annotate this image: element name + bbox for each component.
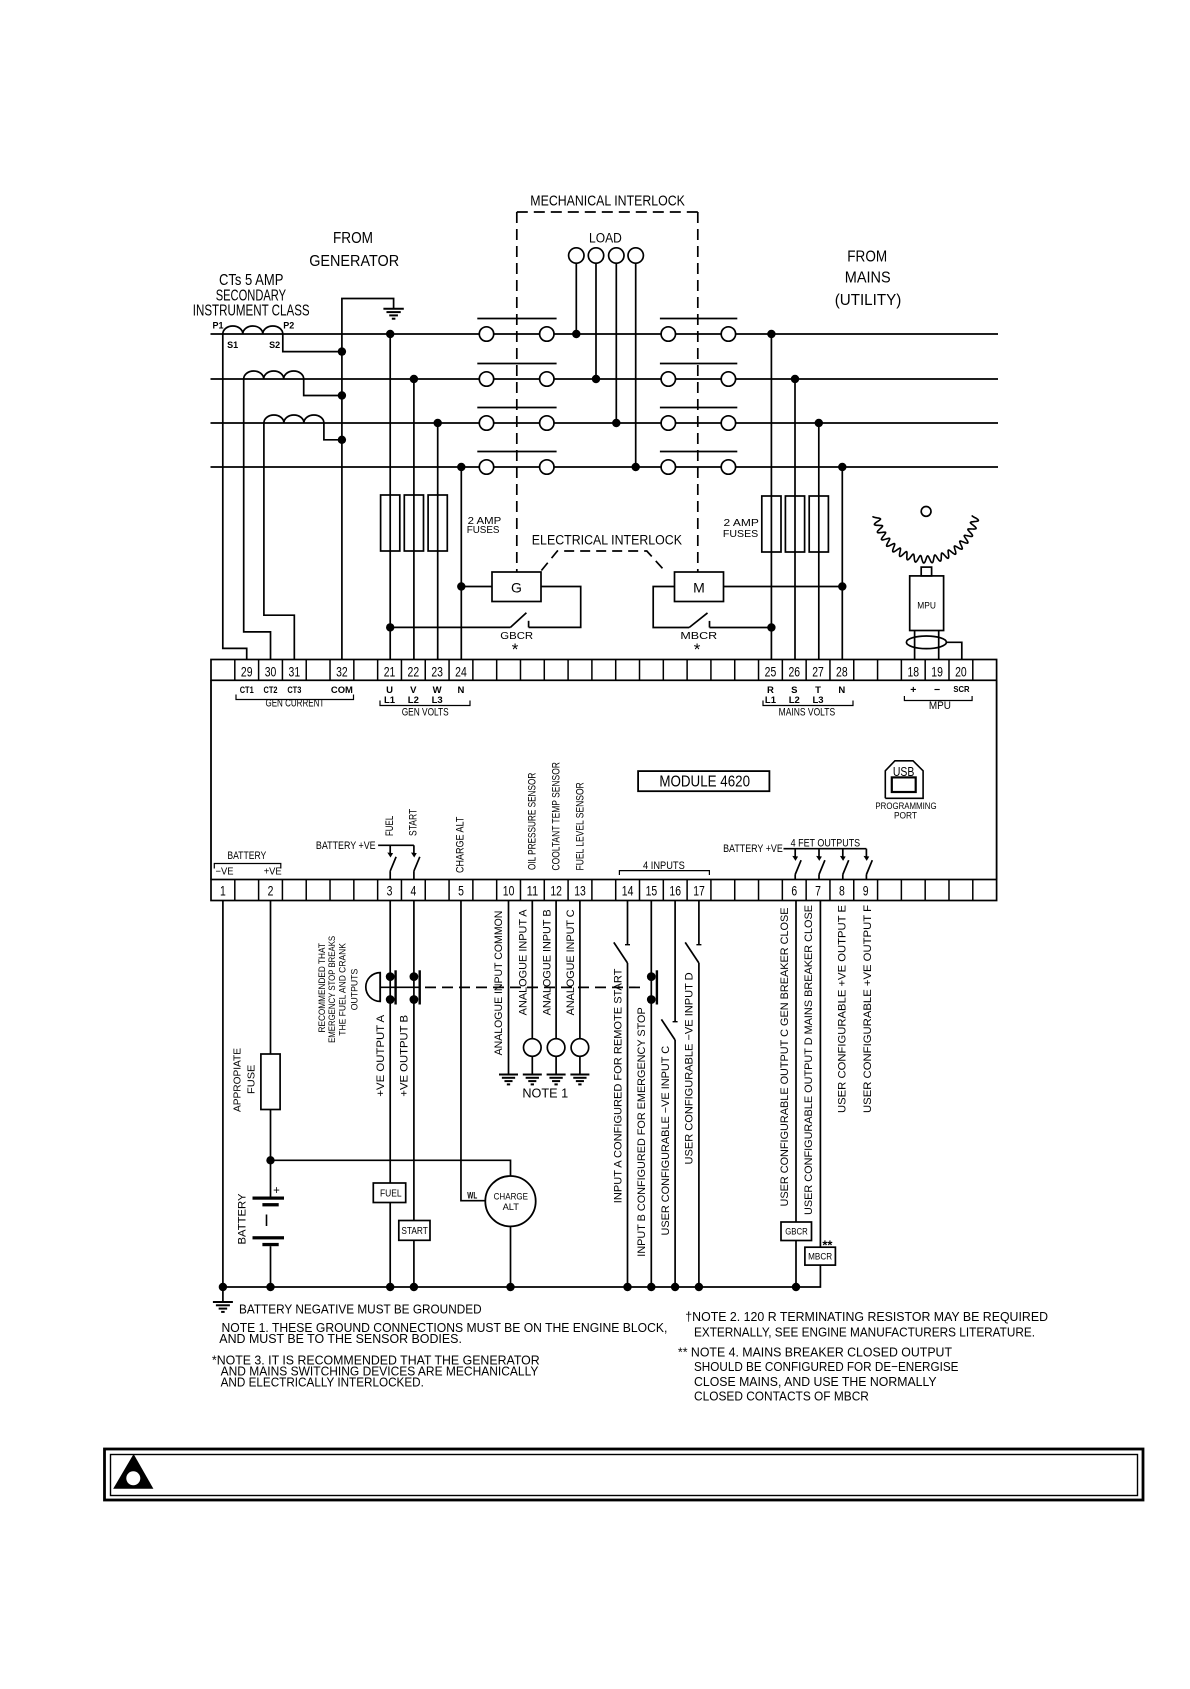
title FROM MAINS (UTILITY)	[835, 248, 902, 309]
terminal strip lower (module bottom edge)	[211, 880, 997, 901]
label FUEL LEVEL SENSOR	[575, 782, 587, 870]
svg-text:COM: COM	[331, 685, 353, 696]
wire sensor B to ground	[555, 1056, 557, 1074]
ground analogue common	[499, 1075, 518, 1085]
FET output switch E	[840, 849, 849, 880]
fuel solenoid box FUEL	[373, 1183, 405, 1203]
ground sensor A	[523, 1075, 542, 1085]
svg-text:PORT: PORT	[894, 811, 917, 822]
label BATTERY +VE (FET feed)	[723, 843, 783, 855]
label USER CONFIGURABLE OUTPUT C GEN BREAKER CLOSE	[779, 908, 791, 1207]
svg-text:2 AMP: 2 AMP	[724, 518, 760, 529]
svg-text:FUSES: FUSES	[723, 529, 759, 540]
battery cells symbol	[253, 1185, 285, 1287]
svg-text:BATTERY: BATTERY	[236, 1193, 248, 1245]
earth ground symbol (CT common)	[383, 309, 403, 319]
svg-text:CHARGE: CHARGE	[494, 1192, 528, 1202]
label APPROPIATE FUSE	[232, 1048, 258, 1112]
svg-text:RECOMMENDED THAT: RECOMMENDED THAT	[317, 943, 327, 1033]
wire battery +ve feed to fuel/start switches	[378, 844, 414, 846]
svg-text:CT2: CT2	[264, 685, 278, 696]
label +VE OUTPUT B	[399, 1015, 411, 1097]
label R S T N / MAINS VOLTS	[763, 685, 853, 718]
svg-text:M: M	[693, 580, 705, 596]
svg-text:AND ELECTRICALLY INTERLOCKED.: AND ELECTRICALLY INTERLOCKED.	[221, 1375, 424, 1390]
svg-text:CT3: CT3	[287, 685, 301, 696]
svg-text:CT1: CT1	[240, 685, 255, 696]
wire mains volts 26 tap	[791, 375, 799, 660]
label BATTERY (vertical)	[236, 1193, 248, 1245]
label ANALOGUE INPUT C	[565, 909, 577, 1015]
label USER CONFIGURABLE -VE INPUT D	[684, 972, 696, 1164]
wire M coil to mains neutral	[723, 582, 846, 590]
svg-text:BATTERY +VE: BATTERY +VE	[723, 843, 783, 855]
label USER CONFIGURABLE OUTPUT D MAINS BREAKER CLOSE	[803, 905, 815, 1215]
label + - SCR / MPU	[904, 684, 972, 712]
wire CT2 S2 to COM	[304, 379, 346, 400]
label LOAD	[589, 230, 622, 245]
label ELECTRICAL INTERLOCK	[532, 533, 682, 548]
svg-text:G: G	[511, 580, 522, 596]
svg-text:MBCR: MBCR	[808, 1252, 832, 1263]
relay coil box GBCR	[781, 1222, 812, 1241]
svg-text:ELECTRICAL INTERLOCK: ELECTRICAL INTERLOCK	[532, 533, 682, 548]
svg-text:22: 22	[408, 663, 420, 679]
title FROM GENERATOR	[309, 230, 399, 270]
label CTs 5 AMP SECONDARY INSTRUMENT CLASS	[193, 272, 310, 319]
svg-text:FUSE: FUSE	[246, 1065, 258, 1094]
wire phase bus L1	[211, 333, 999, 335]
label 2 AMP FUSES (mains)	[723, 518, 759, 540]
wire CT3 S1 to terminal 31	[264, 423, 294, 660]
label BATTERY -VE +VE bracket	[214, 850, 282, 878]
label CHARGE ALT	[454, 816, 466, 873]
svg-text:MAINS VOLTS: MAINS VOLTS	[779, 706, 836, 718]
warning banner box	[105, 1449, 1144, 1500]
chassis ground symbol (battery negative)	[213, 1302, 233, 1312]
USB programming port icon	[885, 761, 923, 799]
svg-text:28: 28	[836, 663, 848, 679]
svg-text:−VE: −VE	[216, 867, 234, 878]
label ** (note 4 marker)	[822, 1238, 833, 1253]
wire gen volts 24 tap	[457, 463, 465, 660]
svg-text:−: −	[934, 684, 940, 696]
fuse battery (appropriate fuse)	[261, 1054, 280, 1110]
svg-text:19: 19	[931, 663, 943, 679]
current transformer CT1	[212, 320, 294, 350]
module left edge	[210, 680, 212, 879]
svg-text:30: 30	[265, 663, 277, 679]
svg-text:16: 16	[669, 883, 681, 899]
MPU cable ellipse	[906, 636, 946, 649]
svg-text:L1: L1	[384, 695, 396, 706]
svg-text:+VE OUTPUT B: +VE OUTPUT B	[399, 1015, 411, 1097]
svg-text:START: START	[401, 1225, 428, 1237]
wire terminal 5 charge alt WL	[461, 901, 486, 1201]
svg-text:SHOULD BE CONFIGURED FOR DE−EN: SHOULD BE CONFIGURED FOR DE−ENERGISE	[694, 1359, 959, 1374]
wire sensor C to ground	[579, 1056, 581, 1074]
current transformer CT3	[264, 415, 324, 423]
svg-text:USER CONFIGURABLE OUTPUT D MAI: USER CONFIGURABLE OUTPUT D MAINS BREAKER…	[803, 905, 815, 1215]
wire charge alt to negative rail	[510, 1226, 512, 1287]
contactor coil M	[675, 572, 724, 602]
warning triangle icon	[113, 1454, 153, 1489]
svg-text:17: 17	[693, 883, 705, 899]
svg-text:20: 20	[955, 663, 967, 679]
label ANALOGUE INPUT A	[518, 909, 530, 1016]
svg-text:*: *	[512, 640, 519, 659]
label USER CONFIGURABLE -VE INPUT C	[660, 1046, 672, 1236]
wire phase bus L3	[211, 422, 999, 424]
svg-text:FROM: FROM	[333, 230, 373, 247]
ground sensor C	[570, 1075, 589, 1085]
auxiliary contact MBCR	[689, 613, 775, 632]
svg-text:23: 23	[431, 663, 443, 679]
svg-text:OIL PRESSURE SENSOR: OIL PRESSURE SENSOR	[527, 773, 539, 870]
wire CT1 S1 to terminal 29	[223, 334, 247, 660]
svg-text:11: 11	[527, 883, 539, 899]
svg-text:ANALOGUE INPUT B: ANALOGUE INPUT B	[541, 909, 553, 1015]
svg-text:L3: L3	[813, 695, 824, 706]
wire terminal 7 output D	[819, 901, 821, 1248]
label ANALOGUE INPUT B	[541, 909, 553, 1015]
wire terminal 10 analogue common	[508, 901, 510, 1075]
svg-text:FROM: FROM	[847, 248, 887, 265]
mains breaker contacts	[660, 319, 737, 475]
terminal strip upper (module top edge)	[211, 660, 997, 681]
svg-text:GEN VOLTS: GEN VOLTS	[402, 706, 449, 718]
wire COM to terminal 32 and earth	[342, 299, 394, 660]
label INPUT B CONFIGURED FOR EMERGENCY STOP	[636, 1007, 648, 1256]
label BATTERY +VE (fuel/start feed)	[316, 840, 376, 852]
svg-text:USER CONFIGURABLE +VE OUTPUT F: USER CONFIGURABLE +VE OUTPUT F	[862, 905, 874, 1113]
wire terminal 6 output C	[795, 901, 797, 1288]
wire mains volts 28 tap	[838, 463, 846, 660]
wire M coil to MBCR contact	[653, 587, 689, 628]
svg-text:START: START	[408, 809, 420, 836]
svg-text:CLOSED CONTACTS OF MBCR: CLOSED CONTACTS OF MBCR	[694, 1389, 869, 1404]
svg-text:10: 10	[503, 883, 515, 899]
svg-text:MODULE 4620: MODULE 4620	[659, 774, 750, 791]
label 2 AMP FUSES (gen)	[467, 516, 502, 536]
label USER CONFIGURABLE +VE OUTPUT F	[862, 905, 874, 1113]
svg-text:USER CONFIGURABLE OUTPUT C GEN: USER CONFIGURABLE OUTPUT C GEN BREAKER C…	[779, 908, 791, 1207]
label WL	[467, 1191, 477, 1201]
svg-text:3: 3	[387, 883, 393, 899]
label 4 INPUTS bracket	[619, 860, 709, 875]
wire terminal 1 battery negative	[222, 901, 224, 1288]
svg-text:LOAD: LOAD	[589, 230, 622, 245]
svg-text:INSTRUMENT CLASS: INSTRUMENT CLASS	[193, 302, 310, 319]
svg-text:9: 9	[863, 883, 869, 899]
svg-text:21: 21	[384, 663, 396, 679]
FET output switch F	[864, 849, 873, 880]
svg-text:BATTERY NEGATIVE MUST BE GROUN: BATTERY NEGATIVE MUST BE GROUNDED	[239, 1302, 482, 1317]
emergency stop contact on input B	[647, 901, 657, 1288]
wire terminal 3 fuel output	[389, 901, 391, 1288]
svg-text:15: 15	[646, 883, 658, 899]
wire CT2 S1 to terminal 30	[244, 379, 271, 660]
svg-text:FUEL: FUEL	[380, 1187, 402, 1199]
auxiliary contact GBCR	[386, 613, 526, 632]
sensor circle analogue input B	[547, 1039, 565, 1057]
wire gen volts 23 tap	[434, 419, 442, 660]
wire phase bus N	[211, 466, 999, 468]
wire terminal 2 battery positive	[270, 901, 272, 1197]
svg-text:†NOTE 2. 120 R TERMINATING RES: †NOTE 2. 120 R TERMINATING RESISTOR MAY …	[685, 1309, 1048, 1324]
svg-text:CHARGE ALT: CHARGE ALT	[454, 816, 466, 873]
fuse F2 gen L2 2A	[404, 495, 423, 551]
wire CT1 S2 to COM	[283, 334, 346, 356]
svg-text:BATTERY: BATTERY	[227, 850, 266, 862]
svg-text:+: +	[910, 684, 916, 696]
svg-text:6: 6	[791, 883, 797, 899]
svg-text:L3: L3	[432, 695, 443, 706]
svg-text:USER CONFIGURABLE −VE INPUT D: USER CONFIGURABLE −VE INPUT D	[684, 972, 696, 1164]
fuse F1 gen L1 2A	[381, 495, 400, 551]
svg-text:29: 29	[241, 663, 253, 679]
label PROGRAMMING PORT	[875, 801, 936, 821]
wire battery +ve feed to FET switches	[784, 848, 867, 850]
svg-text:+: +	[273, 1185, 280, 1197]
label FUEL (output A)	[384, 816, 396, 836]
wire terminal 11 analogue input A	[531, 901, 533, 1039]
svg-text:MECHANICAL INTERLOCK: MECHANICAL INTERLOCK	[530, 192, 685, 209]
sensor circle analogue input A	[524, 1039, 542, 1057]
wire rail to chassis ground	[222, 1287, 224, 1301]
svg-text:ANALOGUE INPUT COMMON: ANALOGUE INPUT COMMON	[493, 911, 505, 1056]
note 1 text	[219, 1320, 667, 1346]
wire mains volts 25 tap	[767, 330, 775, 660]
svg-text:NOTE 1: NOTE 1	[522, 1087, 568, 1101]
svg-text:N: N	[458, 685, 465, 696]
svg-text:ANALOGUE INPUT C: ANALOGUE INPUT C	[565, 909, 577, 1015]
note 3 text	[212, 1353, 540, 1390]
note BATTERY NEGATIVE MUST BE GROUNDED	[239, 1302, 482, 1317]
FET output switch C	[792, 849, 801, 880]
svg-text:OUTPUTS: OUTPUTS	[350, 969, 360, 1011]
svg-text:2: 2	[268, 883, 274, 899]
svg-text:MAINS: MAINS	[845, 269, 891, 286]
svg-text:14: 14	[622, 883, 634, 899]
svg-text:4: 4	[410, 883, 416, 899]
svg-text:GENERATOR: GENERATOR	[309, 253, 399, 270]
svg-text:18: 18	[907, 663, 919, 679]
note 2 text	[685, 1309, 1048, 1340]
charge alternator circle	[485, 1176, 535, 1226]
label U V W N / GEN VOLTS	[380, 685, 470, 718]
svg-text:AND MUST BE TO THE SENSOR BODI: AND MUST BE TO THE SENSOR BODIES.	[219, 1331, 462, 1346]
svg-text:INPUT A CONFIGURED FOR REMOTE: INPUT A CONFIGURED FOR REMOTE START	[612, 968, 624, 1203]
svg-text:USER CONFIGURABLE −VE INPUT C: USER CONFIGURABLE −VE INPUT C	[660, 1046, 672, 1236]
svg-text:**: **	[822, 1238, 833, 1253]
wire battery positive rail to charge alt	[271, 1160, 511, 1176]
wire MPU screen to terminal 20	[946, 642, 961, 659]
ground sensor B	[547, 1075, 566, 1085]
svg-text:P1: P1	[212, 320, 223, 330]
label RECOMMENDED THAT EMERGENCY STOP BREAKS THE FUEL AND CRANK OUTPUTS	[317, 936, 360, 1043]
svg-text:31: 31	[289, 663, 301, 679]
battery negative rail	[219, 1265, 821, 1291]
label 4 FET OUTPUTS	[791, 837, 861, 849]
starter solenoid box START	[399, 1221, 430, 1241]
svg-text:(UTILITY): (UTILITY)	[835, 292, 902, 309]
svg-text:EMERGENCY STOP BREAKS: EMERGENCY STOP BREAKS	[327, 936, 337, 1043]
wire terminal 4 start output	[413, 901, 415, 1288]
svg-text:8: 8	[839, 883, 845, 899]
svg-text:GEN CURRENT: GEN CURRENT	[265, 698, 324, 710]
wire MPU + to terminal 18	[914, 631, 916, 660]
MPU magnetic pickup body	[910, 567, 944, 630]
svg-text:27: 27	[812, 663, 824, 679]
wire gen volts 21 tap	[386, 330, 394, 660]
module right edge	[996, 680, 998, 879]
label CT1 CT2 CT3 COM / GEN CURRENT	[236, 685, 354, 710]
svg-text:ALT: ALT	[503, 1202, 520, 1212]
svg-text:4 FET OUTPUTS: 4 FET OUTPUTS	[791, 837, 861, 849]
svg-text:MPU: MPU	[929, 700, 951, 712]
svg-text:32: 32	[336, 663, 348, 679]
svg-text:1: 1	[220, 883, 226, 899]
label COOLTANT TEMP SENSOR	[550, 762, 562, 870]
svg-text:N: N	[838, 685, 845, 696]
relay contact FUEL output	[387, 845, 396, 879]
svg-text:EXTERNALLY, SEE ENGINE MANUFAC: EXTERNALLY, SEE ENGINE MANUFACTURERS LIT…	[694, 1325, 1035, 1340]
current transformer CT2	[244, 371, 304, 379]
note 4 text	[678, 1345, 959, 1404]
svg-text:** NOTE 4. MAINS BREAKER CLOSE: ** NOTE 4. MAINS BREAKER CLOSED OUTPUT	[678, 1345, 952, 1360]
emergency stop pushbutton (breaks fuel and crank)	[366, 970, 420, 1004]
LOAD connection circles and droppers	[569, 248, 644, 471]
module label MODULE 4620	[638, 771, 769, 791]
label NOTE 1	[522, 1087, 568, 1101]
label +VE OUTPUT A	[375, 1014, 387, 1096]
fuse F4 mains L1 2A	[762, 496, 781, 552]
svg-text:S2: S2	[269, 340, 280, 350]
svg-text:SCR: SCR	[953, 684, 969, 694]
svg-text:*: *	[694, 640, 701, 659]
svg-text:5: 5	[458, 883, 464, 899]
label OIL PRESSURE SENSOR	[527, 773, 539, 870]
svg-text:INPUT B CONFIGURED FOR EMERGEN: INPUT B CONFIGURED FOR EMERGENCY STOP	[636, 1007, 648, 1256]
MPU flywheel hole	[921, 507, 931, 517]
svg-text:+VE: +VE	[264, 867, 282, 878]
label ANALOGUE INPUT COMMON	[493, 911, 505, 1056]
svg-text:ANALOGUE INPUT A: ANALOGUE INPUT A	[518, 909, 530, 1016]
wire G coil to GBCR contact	[529, 587, 581, 628]
svg-text:S1: S1	[227, 340, 238, 350]
svg-text:FUEL LEVEL SENSOR: FUEL LEVEL SENSOR	[575, 782, 587, 870]
sensor circle analogue input C	[571, 1039, 589, 1057]
svg-text:25: 25	[765, 663, 777, 679]
svg-text:26: 26	[788, 663, 800, 679]
wire mains volts 27 tap	[815, 419, 823, 660]
svg-text:12: 12	[550, 883, 562, 899]
label MBCR	[680, 630, 717, 659]
switch input A remote start	[614, 901, 630, 1288]
wire G coil to gen neutral	[457, 582, 492, 590]
svg-text:FUSES: FUSES	[467, 525, 500, 536]
svg-text:BATTERY +VE: BATTERY +VE	[316, 840, 376, 852]
svg-text:USER CONFIGURABLE +VE OUTPUT E: USER CONFIGURABLE +VE OUTPUT E	[837, 905, 849, 1113]
svg-text:MPU: MPU	[917, 601, 936, 611]
svg-text:APPROPIATE: APPROPIATE	[232, 1048, 244, 1112]
relay coil box MBCR	[805, 1247, 836, 1265]
fuse F6 mains L3 2A	[809, 496, 828, 552]
wire gen volts 22 tap	[410, 375, 418, 660]
svg-text:+VE OUTPUT A: +VE OUTPUT A	[375, 1014, 387, 1096]
label START (output B)	[408, 809, 420, 836]
label MECHANICAL INTERLOCK	[530, 192, 685, 209]
electrical interlock dashed link	[541, 551, 664, 571]
svg-text:CLOSE MAINS, AND USE THE NORMA: CLOSE MAINS, AND USE THE NORMALLY	[694, 1374, 937, 1389]
wire CT3 S2 to COM	[324, 423, 346, 444]
wire phase bus L2	[211, 378, 999, 380]
svg-text:L2: L2	[789, 695, 800, 706]
wire MPU - to terminal 19	[938, 631, 940, 660]
relay contact START output	[411, 845, 420, 879]
fuse F3 gen L3 2A	[428, 495, 447, 551]
svg-text:L2: L2	[408, 695, 419, 706]
wire terminal 13 analogue input C	[579, 901, 581, 1039]
MPU flywheel ring gear	[873, 515, 979, 563]
svg-text:7: 7	[815, 883, 821, 899]
label INPUT A CONFIGURED FOR REMOTE START	[612, 968, 624, 1203]
svg-text:24: 24	[455, 663, 467, 679]
switch input D	[685, 901, 701, 1288]
label USER CONFIGURABLE +VE OUTPUT E	[837, 905, 849, 1113]
svg-text:FUEL: FUEL	[384, 816, 396, 836]
svg-text:13: 13	[574, 883, 586, 899]
FET output switch D	[816, 849, 825, 880]
svg-text:WL: WL	[467, 1191, 477, 1201]
svg-text:THE FUEL AND CRANK: THE FUEL AND CRANK	[338, 943, 348, 1036]
svg-text:L1: L1	[765, 695, 777, 706]
wire sensor A to ground	[531, 1056, 533, 1074]
contactor coil G	[492, 572, 541, 602]
generator breaker contacts	[477, 319, 556, 475]
fuse F5 mains L2 2A	[785, 496, 804, 552]
node battery positive rail	[266, 1156, 274, 1164]
svg-text:COOLTANT TEMP SENSOR: COOLTANT TEMP SENSOR	[550, 762, 562, 870]
label GBCR	[500, 630, 533, 659]
switch input C	[661, 901, 677, 1288]
mechanical interlock dashed boundary	[517, 212, 699, 572]
wire terminal 12 analogue input B	[555, 901, 557, 1039]
svg-text:P2: P2	[283, 320, 294, 330]
svg-text:GBCR: GBCR	[785, 1226, 808, 1237]
mechanical link dashed (estop)	[425, 986, 646, 988]
